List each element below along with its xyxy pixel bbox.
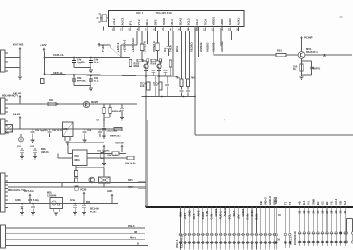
U1 pin stubs and pin numbers xyxy=(113,26,115,31)
svg-text:S-2: S-2 xyxy=(343,200,347,205)
loop wire xyxy=(302,60,312,62)
resistor R65 xyxy=(112,152,119,155)
svg-text:AU-2: AU-2 xyxy=(334,198,338,205)
power arrow PW2 xyxy=(19,116,22,118)
svg-text:+5V: +5V xyxy=(237,214,241,219)
svg-text:B-IN: B-IN xyxy=(254,214,258,220)
svg-text:WGN: WGN xyxy=(134,66,140,68)
svg-text:8PP2/Bu: 8PP2/Bu xyxy=(77,80,87,82)
wire pin3 down xyxy=(147,31,149,44)
svg-text:39: 39 xyxy=(277,238,281,242)
wire U3 in xyxy=(68,153,73,155)
op-amp U4 module xyxy=(50,198,63,209)
ground G42 xyxy=(31,139,35,141)
transistor Q4 xyxy=(83,101,89,107)
svg-text:C/Wb: C/Wb xyxy=(15,200,21,202)
ground GC12 xyxy=(89,69,93,71)
capacitor C8a xyxy=(73,74,75,76)
wire jog mid xyxy=(76,166,104,168)
diode VD31 xyxy=(310,66,313,69)
capacitor C61 xyxy=(21,148,23,150)
resistor R42 xyxy=(103,104,105,108)
svg-text:HSM: HSM xyxy=(220,19,224,26)
svg-text:TUN2: TUN2 xyxy=(162,18,166,26)
svg-text:IF-1: IF-1 xyxy=(129,20,133,25)
svg-text:R106: R106 xyxy=(151,63,157,66)
wire pin4 down xyxy=(157,31,159,43)
svg-text:Rb/MV: Rb/MV xyxy=(91,102,99,104)
wire Q3 emitter down xyxy=(301,58,303,76)
node Q5a xyxy=(102,182,104,184)
svg-text:1b: 1b xyxy=(293,67,296,71)
op-amp U1 HIC1 hybrid IC box xyxy=(108,10,244,26)
svg-text:C6b 1µg0Fb: C6b 1µg0Fb xyxy=(35,130,48,132)
ground G51 xyxy=(102,135,106,137)
emitter bar Q2 xyxy=(157,69,161,71)
wire W3 xyxy=(6,239,146,241)
connector XS1.2 contact circles xyxy=(299,232,301,234)
wire pin1 down-left xyxy=(136,31,138,45)
resistor R21 xyxy=(140,44,143,51)
box G44 xyxy=(41,79,45,84)
svg-text:KA7-M2: KA7-M2 xyxy=(13,92,22,95)
capacitor C51 xyxy=(102,128,106,130)
svg-text:01-b: 01-b xyxy=(94,62,99,64)
wire Q2 emitter down xyxy=(158,68,160,96)
capacitor C14 xyxy=(164,70,168,72)
svg-text:C6b 1µg0Fb: C6b 1µg0Fb xyxy=(97,151,110,153)
svg-text:C/4a: C/4a xyxy=(70,199,76,202)
ground G75 xyxy=(54,212,58,214)
svg-text:R-IN: R-IN xyxy=(245,214,249,220)
svg-text:05k-6: 05k-6 xyxy=(128,225,135,228)
svg-text:R2: R2 xyxy=(316,201,320,205)
svg-text:AUD-L: AUD-L xyxy=(219,211,223,220)
svg-text:SVHS: SVHS xyxy=(201,212,205,220)
svg-text:V1DEO: V1DEO xyxy=(189,41,193,52)
resistor R32 xyxy=(300,64,303,71)
svg-text:WF01: WF01 xyxy=(314,67,321,71)
svg-text:AV-1: AV-1 xyxy=(192,213,196,219)
node Q2e xyxy=(158,75,160,77)
node D xyxy=(183,96,185,98)
crystal X1 xyxy=(107,17,108,19)
rail H11 xyxy=(7,203,118,205)
svg-text:CON4016: CON4016 xyxy=(180,234,184,248)
svg-text:VIDEO: VIDEO xyxy=(212,16,216,26)
wire pin10 stub xyxy=(220,31,222,46)
rail H10 xyxy=(5,182,146,184)
svg-text:MDL: MDL xyxy=(41,149,47,151)
svg-text:HIC 1: HIC 1 xyxy=(136,11,144,15)
node V1 corner xyxy=(145,206,147,208)
wire R22 to Q2 xyxy=(157,51,159,62)
svg-text:C/X0046: C/X0046 xyxy=(47,194,57,197)
resistor R14b xyxy=(159,59,161,62)
capacitor C2 xyxy=(90,57,92,59)
svg-text:/4M-Cb: /4M-Cb xyxy=(41,151,49,154)
wire V1 long vertical xyxy=(145,97,147,207)
wire column seg2 xyxy=(103,148,105,153)
ground G62b xyxy=(33,156,37,158)
wire vertical x44 xyxy=(44,52,46,75)
svg-text:AUD-O: AUD-O xyxy=(268,195,272,205)
svg-text:1µg0Fb: 1µg0Fb xyxy=(77,62,85,64)
component below rail xyxy=(76,185,78,188)
svg-text:Y-IN: Y-IN xyxy=(205,211,209,216)
svg-text:T2: T2 xyxy=(288,201,292,205)
capacitor C15 xyxy=(181,86,183,90)
svg-text:B: B xyxy=(137,242,139,245)
ground G1 xyxy=(18,76,22,78)
svg-text:GND3: GND3 xyxy=(241,208,245,216)
svg-text:SDA: SDA xyxy=(232,211,236,217)
svg-text:KA7-M2: KA7-M2 xyxy=(13,43,24,47)
resistor R66 xyxy=(127,156,134,159)
capacitor C41 xyxy=(121,104,123,108)
svg-text:XS1.1: XS1.1 xyxy=(175,239,179,248)
resistor R105 xyxy=(137,59,143,62)
wire pin2 down xyxy=(141,31,143,44)
svg-text:01-b: 01-b xyxy=(94,80,99,82)
capacitor C43 xyxy=(49,129,51,131)
svg-text:AGC2: AGC2 xyxy=(120,17,124,25)
svg-text:AUX1: AUX1 xyxy=(237,17,241,25)
svg-text:7k0: 7k0 xyxy=(176,76,181,80)
svg-text:AU02: AU02 xyxy=(228,18,232,26)
svg-text:7k0: 7k0 xyxy=(191,76,196,80)
resistor R44 xyxy=(114,127,122,130)
resistor R43 xyxy=(109,104,111,108)
connector XP6 xyxy=(1,173,6,212)
wire U4 legs xyxy=(52,209,54,213)
svg-text:CX: CX xyxy=(57,204,61,207)
svg-text:C8b/1k-B0: C8b/1k-B0 xyxy=(107,131,118,133)
resistor R12 xyxy=(169,60,172,67)
svg-text:HCT-A/A: HCT-A/A xyxy=(24,190,34,193)
capacitor C62 xyxy=(34,148,36,150)
capacitor C72 xyxy=(83,204,85,206)
wire U3 out1 xyxy=(87,153,112,155)
svg-text:C1/R-1b: C1/R-1b xyxy=(53,53,64,57)
capacitor C1 xyxy=(73,57,75,59)
capacitor C11 xyxy=(155,76,157,84)
wire R21 to Q1 xyxy=(141,51,143,62)
svg-text:AUDIO: AUDIO xyxy=(205,42,209,52)
svg-text:BCA: BCA xyxy=(175,45,179,52)
svg-text:B2/Rb-M: B2/Rb-M xyxy=(112,111,121,113)
connector XS1.1 contact circles xyxy=(179,233,181,235)
svg-text:VID-O: VID-O xyxy=(263,196,267,205)
tick mark xyxy=(323,56,326,58)
svg-text:YS: YS xyxy=(329,201,333,205)
svg-text:V-1: V-1 xyxy=(307,200,311,205)
svg-text:H-1: H-1 xyxy=(302,200,306,205)
node H11a xyxy=(21,203,23,205)
wire U3 out1b xyxy=(119,153,126,155)
svg-text:+12V/AGC: +12V/AGC xyxy=(131,37,135,52)
ground G52 xyxy=(102,163,106,165)
svg-text:B2: B2 xyxy=(325,201,329,205)
svg-text:MB/Pb-Bu: MB/Pb-Bu xyxy=(110,136,121,138)
svg-text:G2: G2 xyxy=(320,201,324,205)
ground G74 xyxy=(31,212,35,214)
resistor R51 xyxy=(101,153,104,159)
svg-text:RF-1: RF-1 xyxy=(145,19,149,26)
svg-text:TD3-4B7-F4G: TD3-4B7-F4G xyxy=(156,11,172,15)
svg-text:B/Cb-9d: B/Cb-9d xyxy=(90,209,99,211)
svg-text:HSM-B: HSM-B xyxy=(199,43,203,52)
svg-text:GND: GND xyxy=(187,210,191,216)
capacitor C16 xyxy=(187,86,189,90)
svg-text:3Y/B3-b: 3Y/B3-b xyxy=(152,41,156,52)
connector XP5 xyxy=(1,119,6,134)
resistor R17 xyxy=(147,82,150,90)
wire to Q3 xyxy=(301,40,303,52)
transistor Q2 xyxy=(157,64,161,68)
rail H8 xyxy=(5,128,122,130)
node B xyxy=(145,96,147,98)
ground G43 xyxy=(66,141,70,143)
power arrow PW9 xyxy=(111,194,114,196)
node E xyxy=(324,54,326,56)
power arrow +12V xyxy=(43,48,46,50)
svg-text:KA7-M2: KA7-M2 xyxy=(116,142,125,145)
svg-text:NP1: NP1 xyxy=(128,179,133,182)
ground G61 xyxy=(20,156,24,158)
ground G72 xyxy=(73,212,77,214)
wire H2 bottom of loop xyxy=(195,134,353,136)
rail H6 xyxy=(142,96,196,98)
wire C1C2 join xyxy=(74,67,91,69)
op-amp U2 small module xyxy=(63,122,74,137)
svg-text:TICA: TICA xyxy=(153,82,159,86)
svg-text:VT-2: VT-2 xyxy=(137,19,141,25)
wire H1 audio xyxy=(214,54,276,56)
ground G73 xyxy=(82,212,86,214)
wire x20 down xyxy=(19,120,21,130)
svg-text:T1: T1 xyxy=(283,201,287,205)
resistor R11 xyxy=(129,60,132,67)
svg-text:GD: GD xyxy=(339,201,343,205)
wire Q1 emitter down xyxy=(145,68,147,96)
connector XP8 xyxy=(1,225,6,248)
svg-text:+B: +B xyxy=(298,201,302,205)
svg-text:PC/NP: PC/NP xyxy=(304,36,313,40)
ground GC8 xyxy=(89,87,93,89)
resistor R31 xyxy=(276,53,286,56)
artifact dash xyxy=(340,16,343,18)
svg-text:ICL2: ICL2 xyxy=(195,19,199,26)
op-amp U3 PHI module xyxy=(73,150,88,166)
resistor R18 xyxy=(159,82,162,90)
svg-text:GND: GND xyxy=(311,199,315,205)
resistor R62 xyxy=(74,178,77,183)
transistor Q1 xyxy=(144,64,148,68)
connector XS1.2 pins xyxy=(299,207,301,233)
svg-text:UF-3: UF-3 xyxy=(170,19,174,26)
svg-text:SCL: SCL xyxy=(228,214,232,220)
svg-text:10b: 10b xyxy=(140,84,145,88)
power arrow PW6 xyxy=(29,194,32,196)
svg-text:PHI: PHI xyxy=(75,155,79,158)
svg-text:CON4016: CON4016 xyxy=(293,231,297,245)
svg-text:NP2: NP2 xyxy=(128,186,133,189)
svg-text:+12V: +12V xyxy=(40,43,47,47)
svg-text:AB40: AB40 xyxy=(274,196,278,204)
power arrow small xyxy=(98,43,101,45)
capacitor C12 xyxy=(166,76,168,84)
capacitor C8b xyxy=(90,75,92,77)
resistor R15 xyxy=(180,79,183,87)
ground G71 xyxy=(20,212,24,214)
svg-text:SCL2: SCL2 xyxy=(187,18,191,26)
xbox K1 xyxy=(5,125,13,133)
transistor Q5 xyxy=(89,177,95,183)
power arrow KA7-M2 xyxy=(19,47,22,49)
resistor R13b xyxy=(147,59,149,62)
svg-text:C-IN: C-IN xyxy=(210,214,214,220)
emitter bar Q1 xyxy=(144,69,148,71)
wire V1b xyxy=(147,120,149,206)
power arrow PW5 xyxy=(103,145,106,147)
svg-text:B/U: B/U xyxy=(178,212,182,217)
svg-text:XS1.2: XS1.2 xyxy=(289,236,293,245)
transistor Q3 xyxy=(298,52,305,59)
svg-text:T HU: T HU xyxy=(101,45,105,52)
resistor R16 xyxy=(187,79,190,87)
svg-text:C74 5.1kg: C74 5.1kg xyxy=(28,199,39,202)
svg-text:G-IN: G-IN xyxy=(250,211,254,217)
wire column seg3 xyxy=(103,159,105,164)
ground G45 xyxy=(83,139,87,141)
node x44a xyxy=(44,57,46,59)
resistor R61 xyxy=(74,171,77,177)
svg-text:+CL2: +CL2 xyxy=(112,18,116,25)
svg-text:+12V/A-2: +12V/A-2 xyxy=(122,39,126,52)
svg-text:AUD-R: AUD-R xyxy=(223,207,227,216)
wire U3 out2 xyxy=(87,157,127,159)
svg-text:+12V: +12V xyxy=(183,213,187,220)
node F xyxy=(57,103,59,105)
svg-text:R41: R41 xyxy=(49,99,54,102)
svg-text:GND2: GND2 xyxy=(214,208,218,216)
rail H5 xyxy=(44,74,178,76)
wire x189.5 down xyxy=(189,31,191,79)
node C xyxy=(161,96,163,98)
svg-text:+12V-1: +12V-1 xyxy=(116,42,120,52)
svg-text:AUX011: AUX011 xyxy=(220,41,224,52)
node Q1e xyxy=(145,75,147,77)
node G xyxy=(103,119,105,121)
wire pin8 down xyxy=(194,26,196,97)
capacitor C13 xyxy=(152,70,156,72)
wire W1 xyxy=(6,227,146,229)
wire C8 join xyxy=(74,85,91,87)
svg-text:40: 40 xyxy=(278,213,282,217)
wire pin9 AUDIO down xyxy=(213,31,215,55)
power arrow PW6b xyxy=(121,145,124,147)
power arrow PC/NP xyxy=(300,36,303,38)
bus line xyxy=(146,206,353,208)
wire W2 xyxy=(6,233,146,235)
svg-text:4br-c: 4br-c xyxy=(130,237,137,240)
wire pin5 down xyxy=(172,31,174,76)
power arrow PW8 xyxy=(83,192,86,194)
wire jog2 xyxy=(8,186,146,188)
wire x185.5 down xyxy=(185,31,187,79)
svg-text:4B: 4B xyxy=(134,231,137,234)
svg-text:KA-M2: KA-M2 xyxy=(13,113,21,116)
capacitor C45 xyxy=(99,129,101,131)
svg-text:C6b 1k-2b: C6b 1k-2b xyxy=(125,163,136,165)
svg-text:C6b 1k-7b: C6b 1k-7b xyxy=(52,130,63,132)
ground G3 xyxy=(300,76,304,78)
connector XP4 xyxy=(1,98,6,114)
svg-text:Pb-Bu: Pb-Bu xyxy=(90,212,97,214)
wire pin11 stub xyxy=(231,31,233,40)
resistor R22 xyxy=(156,43,159,51)
svg-text:BS-B17-1: BS-B17-1 xyxy=(306,50,318,54)
resistor R41 xyxy=(48,102,56,105)
pin 40 tall xyxy=(275,207,277,234)
power arrow PW1b xyxy=(19,95,22,97)
svg-text:AV-2: AV-2 xyxy=(196,210,200,216)
wire W4 xyxy=(6,244,149,246)
svg-text:SDA2: SDA2 xyxy=(178,17,182,25)
svg-text:FB: FB xyxy=(259,201,263,205)
svg-text:VC5B: VC5B xyxy=(80,188,87,191)
capacitor C74 xyxy=(32,204,34,206)
xbox K2 xyxy=(99,177,111,183)
svg-text:MDA: MDA xyxy=(75,159,81,162)
connector XP3 xyxy=(1,50,6,72)
connector XS1.1 pins xyxy=(180,207,182,234)
wire vertical x20 xyxy=(19,51,21,77)
wire x181.5 down xyxy=(181,31,183,79)
capacitor C71 xyxy=(74,204,76,206)
svg-text:ICL: ICL xyxy=(163,47,167,52)
capacitor C42 xyxy=(32,129,34,131)
wire jog top xyxy=(68,141,104,143)
svg-text:TICA: TICA xyxy=(203,19,207,26)
capacitor C44 xyxy=(84,129,86,131)
wire PHI down xyxy=(75,166,77,171)
wire pin8b down xyxy=(198,26,200,57)
capacitor C21 xyxy=(168,31,170,46)
resistor R106 xyxy=(151,59,156,62)
svg-text:C8/R-1b: C8/R-1b xyxy=(53,72,63,75)
svg-text:4d01: 4d01 xyxy=(107,190,113,193)
rail H4 xyxy=(44,57,130,59)
diode VD61 xyxy=(21,204,23,206)
wire column seg1 xyxy=(103,120,105,128)
wire V2 vertical xyxy=(194,97,196,136)
rail H7 xyxy=(5,103,137,105)
svg-text:SIF2: SIF2 xyxy=(154,19,158,25)
orphan pins xyxy=(284,207,286,234)
svg-text:R64: R64 xyxy=(86,201,91,204)
wire PW1b xyxy=(19,98,21,104)
svg-text:R31: R31 xyxy=(277,49,282,53)
bracket right xyxy=(347,218,353,220)
lamp HL1 xyxy=(19,137,24,142)
